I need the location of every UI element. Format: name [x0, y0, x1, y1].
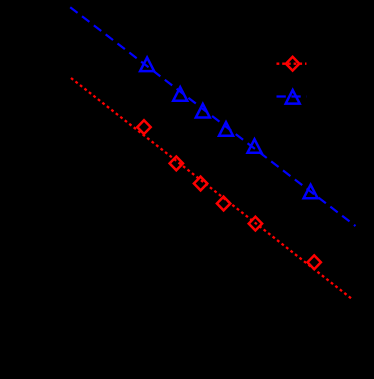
legend blue dashed line sample [277, 95, 307, 97]
red diamond marker D5 [249, 217, 262, 231]
red diamond marker D1 [137, 120, 150, 134]
blue triangle marker T2 [173, 87, 187, 101]
red diamond marker D6 [308, 255, 321, 269]
blue triangle marker T4 [219, 122, 233, 136]
blue dashed fit line [70, 7, 355, 226]
red diamond marker D4 [217, 197, 230, 211]
red dotted fit line [71, 78, 352, 299]
blue triangle marker T6 [304, 185, 318, 199]
legend red dotted line sample [277, 63, 307, 65]
blue triangle marker T5 [248, 139, 262, 153]
red diamond marker D2 [170, 157, 183, 171]
red diamond marker D3 [194, 177, 207, 191]
legend red diamond marker [286, 57, 299, 71]
blue triangle marker T1 [140, 58, 154, 72]
legend blue triangle marker [286, 90, 300, 104]
blue triangle marker T3 [196, 104, 210, 118]
